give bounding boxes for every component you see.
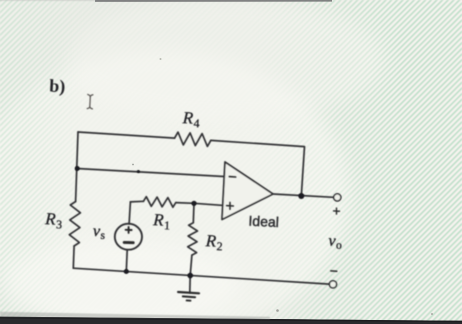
svg-text:o: o	[336, 240, 343, 252]
wire: R1 right lead to node B	[176, 202, 194, 205]
svg-text:R: R	[44, 209, 57, 229]
label R2	[204, 231, 223, 253]
tiny blob on inverting wire	[137, 170, 140, 173]
wire: node B down to R2	[192, 203, 195, 222]
vs - bar	[124, 241, 133, 244]
ground node dot	[187, 273, 193, 279]
wire: R2 bottom lead to ground node	[190, 255, 192, 275]
top dark photo edge line	[95, 0, 332, 2]
svg-text:R: R	[152, 210, 165, 230]
svg-text:3: 3	[56, 217, 63, 231]
svg-text:4: 4	[193, 116, 200, 130]
ground stem	[189, 276, 191, 293]
vs + sign	[126, 227, 132, 233]
wire: R3 bottom to bottom-left corner	[72, 246, 75, 268]
svg-text:2: 2	[216, 239, 223, 253]
ground bars	[178, 292, 199, 293]
dust specks	[276, 309, 279, 312]
stronger stripes right side	[250, 0, 462, 324]
wire: vs bottom lead	[125, 250, 128, 272]
node A dot	[75, 166, 80, 171]
op-amp plus sign	[227, 202, 234, 209]
output terminal -	[329, 281, 336, 288]
label vs	[92, 223, 106, 242]
label R4	[181, 108, 200, 130]
label R3	[44, 209, 63, 231]
svg-text:R: R	[181, 108, 194, 128]
svg-text:1: 1	[164, 218, 171, 232]
svg-text:b): b)	[49, 76, 66, 98]
output + sign	[334, 208, 340, 214]
svg-text:Ideal: Ideal	[248, 213, 279, 231]
wire: top-left corner to R4 left	[78, 132, 175, 138]
wire: R1 left lead	[130, 200, 143, 203]
op-amp minus sign	[229, 176, 235, 178]
svg-text:R: R	[204, 231, 217, 251]
node B dot	[191, 201, 196, 206]
resistor R1	[143, 197, 175, 208]
output node dot	[298, 193, 304, 199]
source vs circle	[115, 224, 142, 250]
bottom rail dot at vs	[124, 269, 129, 274]
wire: R4 right to top-right corner, down to output node	[211, 140, 305, 196]
resistor R4	[175, 132, 211, 146]
op-amp U1	[222, 162, 273, 220]
wire: op-amp output to terminal	[273, 194, 334, 197]
bright washed paper area over circuit	[0, 50, 350, 324]
output terminal +	[334, 194, 341, 201]
resistor R2	[188, 223, 198, 255]
wire: left vertical top segment (corner to R3)	[76, 132, 78, 202]
wire: node B to op-amp non-inverting input	[194, 203, 222, 205]
wire: bottom rail	[73, 268, 329, 284]
bottom dark photo bar	[0, 317, 462, 324]
stronger stripes left edge	[0, 0, 85, 324]
label vo	[328, 233, 343, 252]
resistor R3	[69, 202, 80, 247]
wire: vs top lead up to R1 corner	[129, 202, 130, 224]
text I-beam cursor	[87, 94, 93, 109]
output - sign	[331, 270, 337, 272]
wire: node A to op-amp inverting input	[77, 169, 224, 177]
label R1	[152, 210, 171, 232]
